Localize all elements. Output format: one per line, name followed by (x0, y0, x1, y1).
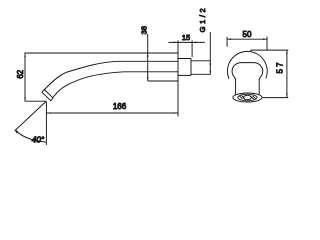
dimension 166 arrow right (174, 112, 179, 114)
dimension 57 arrow top (286, 50, 288, 54)
dimension 38 arrow top (147, 53, 149, 57)
dimension 38 arrow bottom (147, 77, 149, 81)
outlet middle ellipse (238, 94, 257, 101)
svg-text:166: 166 (113, 102, 127, 111)
connector block behind wall (178, 59, 191, 76)
spout tip outer face line (42, 92, 51, 101)
wall face vertical line x=178 (177, 40, 179, 116)
wire: bottom extension line to spout tip (25, 100, 47, 102)
dimension 57 arrow bottom (286, 93, 288, 97)
G1/2 arrow bottom (210, 71, 212, 75)
dimension 57 extension top (250, 49, 288, 51)
threaded nipple G1/2 (191, 61, 210, 75)
outlet outer ellipse (233, 93, 262, 102)
outlet inner ellipse (244, 95, 252, 99)
spout tip inner face line (44, 90, 53, 99)
tube bell silhouette (front) (232, 63, 263, 95)
dimension 166 arrow left (46, 112, 51, 114)
dimension 50 line (227, 38, 267, 40)
svg-text:38: 38 (140, 26, 149, 34)
angle 40 vertical leg (45, 101, 47, 145)
flange circle (front) (227, 51, 267, 79)
dimension 57 extension bottom (263, 97, 289, 99)
flange plate left edge / dimension 38 line (147, 34, 149, 81)
dimension 62 line (24, 53, 26, 101)
G1/2 dimension line / nipple end face (209, 32, 211, 75)
angle 40 slant leg (15, 102, 46, 131)
dimension 15 extension line right (191, 40, 193, 57)
dimension 57 line (286, 50, 288, 97)
dimension 15 arrow right (192, 42, 196, 44)
dimension 62 arrow top (24, 53, 26, 57)
angle 40 arc arrow left (15, 129, 19, 133)
dimension 50 extension right (266, 37, 268, 50)
svg-text:G1/2: G1/2 (198, 6, 207, 33)
spout tube bottom edge (51, 72, 178, 101)
flange plate bottom edge (148, 80, 178, 82)
outlet aerator hatch (240, 96, 256, 99)
G1/2 arrow top (210, 61, 212, 65)
svg-text:57: 57 (275, 61, 284, 74)
dimension 166 line (46, 112, 178, 114)
angle 40 arc (15, 130, 46, 142)
dimension 50 arrow left (227, 38, 231, 40)
wire: top extension line / flange top edge (25, 52, 179, 54)
dimension 15 line (169, 41, 205, 43)
spout tube top edge (42, 61, 178, 92)
dimension 50 extension left (226, 37, 228, 47)
svg-text:62: 62 (16, 69, 25, 78)
svg-text:40°: 40° (32, 134, 45, 144)
dimension 62 arrow bottom (24, 97, 26, 101)
svg-text:15: 15 (182, 33, 190, 42)
svg-text:50: 50 (243, 30, 252, 39)
dimension 50 arrow right (263, 38, 267, 40)
dimension 15 arrow left (174, 42, 178, 44)
